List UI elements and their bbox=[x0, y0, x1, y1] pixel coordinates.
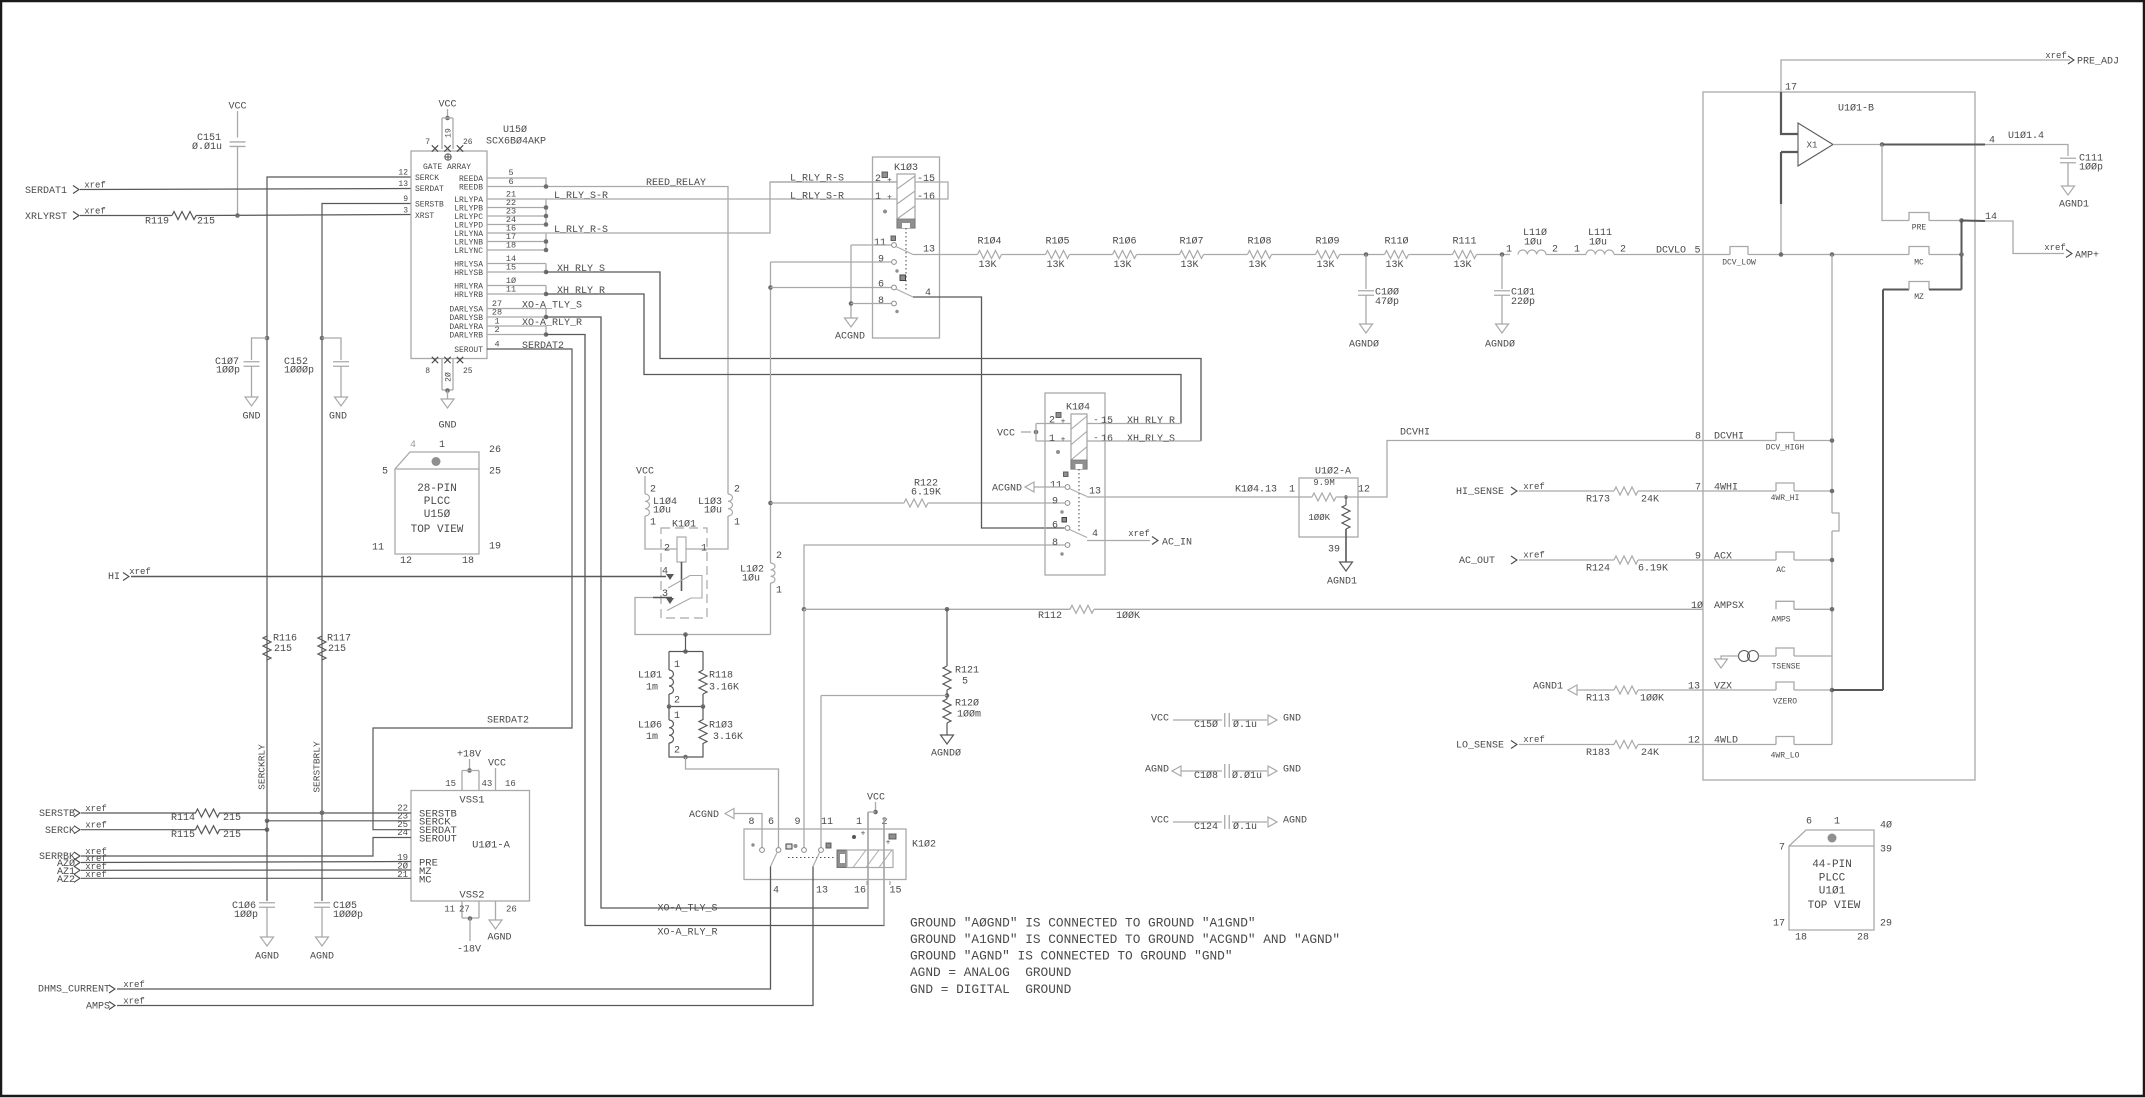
junction ladder top bbox=[683, 632, 688, 637]
svg-text:4: 4 bbox=[410, 440, 416, 451]
wires DARLYSA-B pins 27-28 tied bbox=[487, 308, 546, 310]
junction C100 tap bbox=[1364, 252, 1369, 257]
jumper PRE bbox=[1909, 213, 1929, 221]
svg-text:AGND: AGND bbox=[310, 952, 334, 963]
resistor R119 215 bbox=[80, 215, 172, 217]
svg-text:SERDAT2: SERDAT2 bbox=[487, 716, 529, 727]
resistor R120 100m bbox=[943, 699, 951, 723]
svg-text:XRST: XRST bbox=[415, 212, 434, 221]
capacitor C124 0.1u bbox=[1225, 815, 1230, 829]
svg-text:AMP+: AMP+ bbox=[2075, 251, 2099, 262]
svg-text:16: 16 bbox=[505, 779, 516, 789]
svg-text:11: 11 bbox=[372, 543, 384, 554]
svg-text:+: + bbox=[1061, 417, 1066, 426]
IC U101-B boundary box bbox=[1703, 92, 1975, 780]
svg-text:AGND1: AGND1 bbox=[1533, 682, 1563, 693]
IC U101 44-PIN PLCC package outline bbox=[1789, 830, 1874, 930]
wire U102-A pin 39 to AGND1 bbox=[1345, 529, 1347, 562]
jumper MZ bbox=[1909, 282, 1929, 290]
resistor R104 13K bbox=[978, 251, 1002, 259]
svg-text:15: 15 bbox=[1101, 416, 1113, 427]
inductor L104 10u bbox=[645, 494, 650, 516]
svg-text:3: 3 bbox=[403, 206, 408, 215]
svg-text:2: 2 bbox=[650, 485, 656, 496]
svg-text:XH_RLY_R: XH_RLY_R bbox=[1127, 416, 1175, 427]
wire R112 junction down to K102 pin 9 bbox=[803, 609, 805, 847]
junction K103 pin6 tap bbox=[768, 285, 773, 290]
resistor R117 215 bbox=[318, 636, 326, 660]
svg-text:13K: 13K bbox=[1453, 260, 1471, 271]
junction SERCK pin23 tap bbox=[265, 819, 270, 824]
ground AGND under C106 bbox=[261, 937, 274, 946]
svg-text:1: 1 bbox=[1506, 245, 1512, 256]
svg-text:PLCC: PLCC bbox=[424, 496, 451, 508]
svg-text:AGND: AGND bbox=[487, 933, 511, 944]
resistor R109 13K bbox=[1316, 251, 1340, 259]
wires HRLYRA-B pins 10-11 tied bbox=[487, 285, 546, 287]
svg-text:1m: 1m bbox=[646, 683, 658, 694]
svg-text:1ØØK: 1ØØK bbox=[1640, 693, 1664, 705]
relay K104 arm 13 bbox=[1070, 489, 1088, 497]
svg-text:R115: R115 bbox=[171, 830, 195, 841]
svg-text:215: 215 bbox=[328, 644, 346, 655]
svg-text:XH_RLY_S: XH_RLY_S bbox=[1127, 434, 1175, 445]
svg-text:+: + bbox=[887, 193, 892, 202]
svg-text:HI_SENSE: HI_SENSE bbox=[1456, 487, 1504, 498]
relay K101 actuator link bbox=[681, 562, 683, 591]
wire chain continues to L110 bbox=[1477, 254, 1511, 256]
svg-text:2: 2 bbox=[875, 174, 881, 185]
svg-text:MC: MC bbox=[1914, 258, 1924, 267]
svg-text:GROUND "AØGND" IS CONNECTED TO: GROUND "AØGND" IS CONNECTED TO GROUND "A… bbox=[910, 916, 1256, 931]
svg-text:1ØØK: 1ØØK bbox=[1116, 610, 1140, 622]
svg-text:GND: GND bbox=[242, 412, 260, 423]
svg-text:1: 1 bbox=[439, 440, 445, 451]
svg-text:2: 2 bbox=[734, 485, 740, 496]
resistor R103 3.16K bbox=[699, 720, 707, 744]
power GND bottom of U150 bbox=[441, 359, 443, 391]
svg-text:17: 17 bbox=[1773, 919, 1785, 930]
svg-text:15: 15 bbox=[889, 886, 901, 897]
svg-text:7: 7 bbox=[1779, 843, 1785, 854]
svg-text:xref: xref bbox=[129, 567, 151, 577]
svg-text:ACGND: ACGND bbox=[689, 810, 719, 821]
svg-text:xref: xref bbox=[1128, 529, 1150, 539]
wire K103 pin 11 / pin 8 to ACGND bbox=[851, 244, 892, 246]
svg-text:VCC: VCC bbox=[636, 467, 654, 478]
wire REEDA pin5 bbox=[487, 178, 546, 187]
jumper on internal bus bbox=[1832, 513, 1839, 531]
ground AGND0 under C100 bbox=[1360, 324, 1373, 333]
wire op-amp top input bbox=[1781, 92, 1798, 134]
svg-text:7: 7 bbox=[425, 138, 430, 147]
svg-text:2: 2 bbox=[776, 551, 782, 562]
relay K102 misc marks bbox=[751, 843, 754, 846]
junction C101 tap bbox=[1500, 252, 1505, 257]
svg-text:U15Ø: U15Ø bbox=[503, 124, 527, 136]
svg-text:xref: xref bbox=[123, 980, 145, 990]
svg-text:4: 4 bbox=[773, 886, 779, 897]
svg-text:DARLYRB: DARLYRB bbox=[449, 331, 483, 340]
svg-text:43: 43 bbox=[482, 779, 493, 789]
wire R115 to SERCKRLY junction bbox=[219, 829, 267, 831]
wire op-amp bottom input from DCV_LOW bbox=[1781, 151, 1798, 153]
svg-text:1ØØØp: 1ØØØp bbox=[284, 365, 314, 377]
svg-text:DCV_HIGH: DCV_HIGH bbox=[1766, 443, 1805, 452]
wire ladder middle bracket bbox=[669, 694, 703, 707]
svg-text:4: 4 bbox=[1092, 529, 1098, 540]
ground AGND0 under R120 bbox=[941, 735, 954, 744]
svg-text:5: 5 bbox=[1694, 246, 1700, 257]
svg-text:17: 17 bbox=[1785, 83, 1797, 94]
svg-text:8: 8 bbox=[1052, 538, 1058, 549]
svg-text:5: 5 bbox=[962, 677, 968, 688]
svg-text:11: 11 bbox=[874, 238, 886, 249]
svg-text:HRLYRB: HRLYRB bbox=[454, 291, 483, 300]
relay K103 outline bbox=[873, 157, 940, 338]
svg-text:215: 215 bbox=[274, 644, 292, 655]
svg-text:1: 1 bbox=[734, 518, 740, 529]
svg-text:1Ø: 1Ø bbox=[1691, 600, 1703, 612]
relay K103 coil bbox=[897, 174, 915, 228]
svg-text:13: 13 bbox=[1688, 682, 1700, 693]
svg-text:DARLYSB: DARLYSB bbox=[449, 314, 483, 323]
jumper TSENSE bbox=[1759, 655, 1777, 657]
svg-text:GROUND "A1GND" IS CONNECTED TO: GROUND "A1GND" IS CONNECTED TO GROUND "A… bbox=[910, 932, 1340, 947]
svg-text:VCC: VCC bbox=[1151, 714, 1169, 725]
ground AGND under C105 bbox=[316, 937, 329, 946]
svg-text:-18V: -18V bbox=[457, 945, 481, 956]
pin-1 dot marker 44-PIN PLCC bbox=[1828, 834, 1837, 843]
wire pin23 branch to U101-A bbox=[267, 820, 411, 822]
resistor R113 100K bbox=[1614, 686, 1638, 694]
svg-text:ACGND: ACGND bbox=[992, 484, 1022, 495]
capacitor C107 100p bbox=[252, 338, 268, 360]
wire K103 pin 6 stub bbox=[771, 287, 892, 289]
IC U102-A body bbox=[1299, 478, 1358, 537]
svg-text:MZ: MZ bbox=[1914, 293, 1924, 302]
relay K103 arm 4 to K104 pin6 bbox=[896, 289, 913, 297]
wires HRLYSA-B pins 14-15 tied bbox=[487, 263, 546, 265]
wire down to C106 bbox=[266, 830, 268, 901]
wire PRE feedback bbox=[1882, 145, 1909, 221]
svg-text:SERCK: SERCK bbox=[45, 826, 75, 837]
svg-text:3.16K: 3.16K bbox=[709, 683, 739, 694]
svg-text:R116: R116 bbox=[273, 634, 297, 645]
svg-text:215: 215 bbox=[197, 217, 215, 228]
svg-text:12: 12 bbox=[398, 168, 408, 177]
svg-text:6: 6 bbox=[1806, 817, 1812, 828]
svg-text:1: 1 bbox=[674, 660, 680, 671]
svg-text:1: 1 bbox=[674, 711, 680, 722]
wire SERRBK to U101-A pin24 bbox=[81, 838, 411, 857]
svg-text:4: 4 bbox=[1989, 136, 1995, 147]
svg-text:PRE: PRE bbox=[1912, 223, 1927, 232]
svg-text:44-PIN: 44-PIN bbox=[1812, 859, 1852, 871]
relay K103 arm 13 bbox=[896, 247, 913, 255]
svg-text:VSS1: VSS1 bbox=[459, 794, 484, 806]
junction K102 pin11 tap bbox=[945, 693, 950, 698]
svg-text:4WR_LO: 4WR_LO bbox=[1771, 751, 1800, 760]
wire pin14 out bbox=[1962, 220, 1986, 223]
resistor 100K inside U102-A bbox=[1345, 497, 1347, 505]
jumper DCV_HIGH bbox=[1776, 433, 1794, 441]
svg-text:VSS2: VSS2 bbox=[459, 889, 484, 901]
ground AGND arrow C124 bbox=[1268, 817, 1277, 827]
relay K102 dotted actuator bbox=[788, 857, 836, 859]
capacitor C152 1000p bbox=[322, 338, 341, 360]
svg-text:VZX: VZX bbox=[1714, 682, 1732, 693]
svg-text:VZERO: VZERO bbox=[1773, 697, 1797, 706]
resistor R112 100K rail bbox=[804, 608, 1070, 610]
svg-text:1ØØK: 1ØØK bbox=[1308, 513, 1330, 523]
svg-text:2: 2 bbox=[664, 544, 670, 555]
svg-text:LO_SENSE: LO_SENSE bbox=[1456, 741, 1504, 752]
junction R112 rail left bbox=[802, 607, 807, 612]
capacitor C108 0.01u bbox=[1225, 764, 1230, 778]
svg-text:1ØØp: 1ØØp bbox=[2079, 162, 2103, 174]
svg-text:DCV_LOW: DCV_LOW bbox=[1722, 258, 1756, 267]
svg-text:1ØØm: 1ØØm bbox=[957, 709, 981, 721]
svg-text:R1Ø6: R1Ø6 bbox=[1112, 236, 1136, 248]
svg-text:R183: R183 bbox=[1586, 748, 1610, 759]
svg-text:R118: R118 bbox=[709, 671, 733, 682]
svg-text:R111: R111 bbox=[1452, 237, 1476, 248]
capacitor C151 0.01u bbox=[230, 142, 246, 147]
inductor L103 10u bbox=[728, 494, 733, 516]
junction C107 tap bbox=[265, 336, 270, 341]
svg-text:47Øp: 47Øp bbox=[1375, 296, 1399, 308]
svg-text:1ØØØp: 1ØØØp bbox=[333, 909, 363, 921]
svg-text:GND: GND bbox=[329, 412, 347, 423]
wire K103 pin2 entry bbox=[770, 181, 897, 183]
svg-text:1: 1 bbox=[875, 192, 881, 203]
svg-text:8: 8 bbox=[1695, 432, 1701, 443]
resistor R121 5 bbox=[946, 609, 948, 666]
svg-text:AC: AC bbox=[1776, 566, 1786, 575]
svg-text:SERDAT1: SERDAT1 bbox=[25, 186, 67, 197]
svg-text:U1Ø1: U1Ø1 bbox=[1819, 886, 1846, 898]
svg-text:xref: xref bbox=[1523, 735, 1545, 745]
svg-text:39: 39 bbox=[1880, 845, 1892, 856]
wire MZ row dark bbox=[1883, 289, 1909, 291]
svg-text:SEROUT: SEROUT bbox=[419, 833, 457, 845]
svg-text:16: 16 bbox=[854, 886, 866, 897]
ground GND under C107 bbox=[245, 397, 258, 406]
svg-text:39: 39 bbox=[1328, 545, 1340, 556]
svg-text:6: 6 bbox=[878, 280, 884, 291]
svg-text:C15Ø: C15Ø bbox=[1194, 719, 1218, 731]
svg-text:TOP VIEW: TOP VIEW bbox=[411, 524, 464, 536]
svg-text:9.9M: 9.9M bbox=[1313, 478, 1335, 488]
svg-text:13: 13 bbox=[398, 180, 408, 189]
svg-text:2Ø: 2Ø bbox=[444, 372, 453, 382]
svg-text:U1Ø1-A: U1Ø1-A bbox=[472, 839, 511, 851]
wire R122 to K104 pin 9 bbox=[928, 502, 1065, 504]
svg-text:Ø.1u: Ø.1u bbox=[1233, 719, 1257, 731]
svg-text:13: 13 bbox=[1089, 487, 1101, 498]
svg-text:28: 28 bbox=[1857, 933, 1869, 944]
svg-text:GATE ARRAY: GATE ARRAY bbox=[423, 163, 471, 172]
svg-text:SERCK: SERCK bbox=[415, 174, 439, 183]
wire VCC bracket pins 7 19 26 bbox=[442, 117, 453, 119]
svg-text:1ØØp: 1ØØp bbox=[234, 909, 258, 921]
pin marks top of U150 bbox=[432, 145, 438, 151]
svg-text:6.19K: 6.19K bbox=[911, 488, 941, 499]
svg-text:18: 18 bbox=[1795, 933, 1807, 944]
svg-text:K1Ø3: K1Ø3 bbox=[894, 162, 918, 174]
svg-text:Ø.Ø1u: Ø.Ø1u bbox=[192, 141, 222, 153]
wire K102 pin11 branch bbox=[821, 695, 947, 697]
ground GND arrow C108 bbox=[1268, 766, 1277, 776]
svg-text:11: 11 bbox=[444, 905, 455, 915]
svg-text:K1Ø2: K1Ø2 bbox=[912, 839, 936, 851]
relay K101 dashed outline bbox=[661, 528, 707, 618]
svg-text:REEDB: REEDB bbox=[459, 183, 483, 192]
inductor L110 10u bbox=[1518, 250, 1546, 255]
svg-text:K1Ø4: K1Ø4 bbox=[1066, 402, 1090, 414]
inductor L102 10u bbox=[771, 563, 776, 583]
sensor TSENSE circles bbox=[1739, 651, 1750, 662]
svg-text:R173: R173 bbox=[1586, 495, 1610, 506]
resistor R173 24K bbox=[1519, 490, 1614, 492]
svg-text:1Øu: 1Øu bbox=[704, 505, 722, 517]
svg-text:13K: 13K bbox=[1113, 260, 1131, 271]
svg-text:VCC: VCC bbox=[228, 102, 246, 113]
wire K104 coil to XH_RLY_R bbox=[1087, 423, 1181, 425]
svg-text:2: 2 bbox=[674, 746, 680, 757]
svg-text:29: 29 bbox=[1880, 919, 1892, 930]
relay K103 misc marks bbox=[883, 210, 887, 214]
capacitor C100 470p bbox=[1365, 255, 1367, 290]
svg-text:SERSTB: SERSTB bbox=[415, 200, 444, 209]
svg-text:XO-A_TLY_S: XO-A_TLY_S bbox=[657, 904, 717, 915]
wire pin17 to PRE_ADJ bbox=[1781, 60, 2070, 92]
wire net XO-A_RLY_R long run to K102 bbox=[546, 335, 884, 926]
wire net L_RLY_R-S to K103 pin2 bbox=[546, 182, 897, 233]
wire L104 to K101 coil bbox=[645, 516, 677, 549]
svg-text:R121: R121 bbox=[955, 666, 979, 677]
svg-text:12: 12 bbox=[1688, 736, 1700, 747]
resistor R122 6.19K bbox=[771, 502, 905, 504]
svg-text:13K: 13K bbox=[978, 260, 996, 271]
svg-text:4Ø: 4Ø bbox=[1880, 820, 1892, 832]
svg-text:DCVHI: DCVHI bbox=[1400, 428, 1430, 439]
pin-1 dot marker 28-PIN PLCC bbox=[432, 457, 441, 466]
svg-text:AGND: AGND bbox=[1283, 816, 1307, 827]
svg-text:11: 11 bbox=[821, 817, 833, 828]
svg-text:25: 25 bbox=[463, 367, 473, 376]
wire AZ0 to U101-A pin19 bbox=[81, 862, 411, 863]
wire SERCKRLY net: U150 pin12 down left column bbox=[267, 177, 411, 821]
resistor R108 13K bbox=[1248, 251, 1272, 259]
svg-text:R12Ø: R12Ø bbox=[955, 698, 979, 710]
svg-text:3.16K: 3.16K bbox=[713, 732, 743, 743]
svg-text:-: - bbox=[1093, 416, 1098, 426]
inductor L111 10u bbox=[1586, 250, 1614, 255]
svg-text:19: 19 bbox=[444, 128, 453, 138]
svg-text:+: + bbox=[887, 176, 892, 185]
svg-text:TSENSE: TSENSE bbox=[1772, 662, 1801, 671]
wire DCVHI row in box bbox=[1703, 440, 1776, 442]
svg-text:+: + bbox=[861, 829, 866, 838]
jumper AC bbox=[1776, 552, 1794, 560]
svg-text:R1Ø8: R1Ø8 bbox=[1247, 236, 1271, 248]
svg-text:U1Ø1-B: U1Ø1-B bbox=[1838, 103, 1874, 115]
svg-text:xref: xref bbox=[1523, 551, 1545, 561]
wire DCVLO row inside box bbox=[1703, 254, 1730, 256]
wire dark PRE-MC-MZ vertical bbox=[1961, 221, 1963, 290]
svg-text:+: + bbox=[1061, 435, 1066, 444]
svg-text:14: 14 bbox=[1985, 212, 1997, 223]
svg-text:AMPS: AMPS bbox=[86, 1002, 110, 1013]
wire net L_RLY_S-R to K103 pin1 bbox=[546, 198, 897, 200]
svg-text:1Øu: 1Øu bbox=[1524, 237, 1542, 249]
svg-text:1: 1 bbox=[701, 544, 707, 555]
wire K103 pin 9 stub bbox=[771, 261, 892, 263]
resistor R110 13K bbox=[1385, 251, 1409, 259]
svg-text:VCC: VCC bbox=[488, 759, 506, 770]
ground AGND0 under C101 bbox=[1496, 324, 1509, 333]
svg-text:15: 15 bbox=[445, 779, 456, 789]
svg-text:25: 25 bbox=[489, 467, 501, 478]
svg-text:1: 1 bbox=[1834, 817, 1840, 828]
svg-text:R112: R112 bbox=[1038, 611, 1062, 622]
jumper 4WR_HI bbox=[1776, 483, 1794, 491]
svg-text:6: 6 bbox=[768, 817, 774, 828]
svg-text:DCVHI: DCVHI bbox=[1714, 432, 1744, 443]
wire HI to K101 contact 4 bbox=[131, 576, 666, 578]
wire DCVLO resistor chain rail bbox=[913, 254, 978, 256]
svg-text:13K: 13K bbox=[1316, 260, 1334, 271]
wire dark VZX to vertical bbox=[1832, 689, 1883, 691]
relay K104 coil bbox=[1071, 414, 1087, 469]
junction SERSTB row tap bbox=[320, 811, 325, 816]
relay K102 arm 4 bbox=[771, 853, 778, 867]
svg-text:9: 9 bbox=[1695, 552, 1701, 563]
resistor R183 24K bbox=[1519, 744, 1614, 746]
svg-text:28-PIN: 28-PIN bbox=[417, 483, 457, 495]
wire K101 common link bbox=[690, 576, 702, 599]
svg-text:R114: R114 bbox=[171, 813, 195, 824]
power -18V under U101-A bbox=[461, 901, 463, 918]
svg-text:AMPSX: AMPSX bbox=[1714, 601, 1744, 612]
svg-text:1: 1 bbox=[856, 817, 862, 828]
svg-text:TOP VIEW: TOP VIEW bbox=[1808, 900, 1861, 912]
svg-text:K1Ø1: K1Ø1 bbox=[672, 519, 696, 531]
wire down to C105 bbox=[321, 813, 323, 901]
svg-text:VCC: VCC bbox=[867, 793, 885, 804]
svg-text:L_RLY_S-R: L_RLY_S-R bbox=[554, 191, 608, 202]
svg-text:26: 26 bbox=[506, 905, 517, 915]
svg-text:DHMS_CURRENT: DHMS_CURRENT bbox=[38, 985, 110, 996]
wire net XH_RLY_S bbox=[546, 272, 1201, 441]
jumper AMPS bbox=[1776, 601, 1794, 609]
relay K101 coil bbox=[677, 537, 686, 562]
svg-text:SEROUT: SEROUT bbox=[454, 346, 483, 355]
svg-text:L1Ø6: L1Ø6 bbox=[638, 720, 662, 732]
svg-text:1m: 1m bbox=[646, 732, 658, 743]
wire K104 coil to XH_RLY_S bbox=[1087, 440, 1201, 442]
svg-text:26: 26 bbox=[489, 445, 501, 456]
svg-text:1Øu: 1Øu bbox=[1589, 237, 1607, 249]
svg-text:REED_RELAY: REED_RELAY bbox=[646, 178, 706, 189]
svg-text:AGND: AGND bbox=[1145, 765, 1169, 776]
svg-text:AZ2: AZ2 bbox=[57, 875, 75, 886]
svg-text:R1Ø3: R1Ø3 bbox=[709, 720, 733, 732]
resistor R107 13K bbox=[1180, 251, 1204, 259]
svg-text:9: 9 bbox=[1052, 497, 1058, 508]
